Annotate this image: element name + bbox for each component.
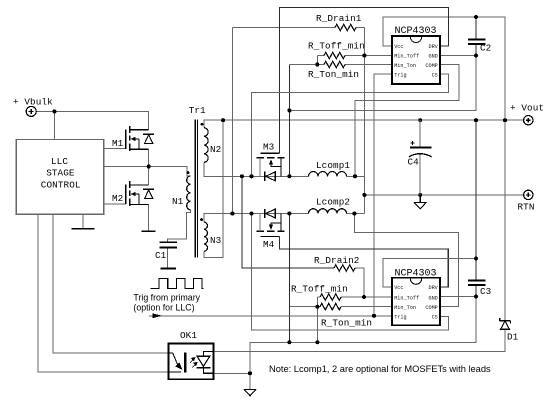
wire R_Drain2 right to Min_Toff2 xyxy=(355,268,364,297)
svg-text:N3: N3 xyxy=(210,235,221,246)
junction node C2/GND1 xyxy=(474,54,478,58)
transformer phase dot N2 xyxy=(201,123,204,126)
resistor R_Toff_min (top) xyxy=(324,52,345,58)
op-amp U2 NCP4303 bottom IC box xyxy=(392,278,440,325)
wire LLC bottom-left to OK1 lower pin xyxy=(38,214,169,372)
transistor M2 (low-side MOSFET) xyxy=(126,181,154,206)
svg-text:Trig from primary: Trig from primary xyxy=(133,293,200,303)
svg-text:GND: GND xyxy=(428,54,437,60)
LLC STAGE CONTROL box xyxy=(16,139,104,214)
svg-text:M2: M2 xyxy=(112,193,123,204)
ground bar under M2 source xyxy=(142,230,156,232)
transformer phase dot N1 xyxy=(187,171,190,174)
wire CS2 sense M4 drain xyxy=(252,214,449,331)
op-amp U1 NCP4303 top IC box xyxy=(392,36,440,84)
junction node Vbulk tap xyxy=(52,109,56,113)
svg-text:R_Toff_min: R_Toff_min xyxy=(308,41,365,52)
svg-text:C2: C2 xyxy=(480,43,491,54)
ground triangle under C4 xyxy=(414,195,426,209)
capacitor C2 xyxy=(468,40,486,44)
svg-text:(option for LLC): (option for LLC) xyxy=(133,303,194,313)
transistor M1 body arrow head xyxy=(131,137,136,141)
wire M4 row right of Lcomp2 xyxy=(347,213,365,215)
junction node half-bridge mid xyxy=(147,165,151,169)
junction node Lcomp2 right xyxy=(352,212,356,216)
wire Vout rail xyxy=(223,119,523,121)
inductor Lcomp1 xyxy=(309,172,347,177)
transistor M3 (SR MOSFET top) xyxy=(256,153,284,181)
trig arrow head xyxy=(153,313,163,318)
wire M4 gate to DRV2 xyxy=(280,236,449,287)
junction node RTN link xyxy=(362,193,366,197)
wire M2 source to ground bar xyxy=(148,204,150,231)
junction node M3 drain CS xyxy=(250,174,254,178)
wire CS top IC to M3 drain xyxy=(252,74,449,176)
svg-text:Vcc: Vcc xyxy=(394,44,403,50)
junction node M4 drain R_Drain1 xyxy=(230,212,234,216)
svg-text:R_Ton_min: R_Ton_min xyxy=(321,318,372,329)
wire Vbulk to M1 drain xyxy=(36,111,149,129)
svg-text:COMP: COMP xyxy=(425,63,437,69)
wire Trig from primary line xyxy=(149,315,392,317)
svg-text:R_Drain1: R_Drain1 xyxy=(316,13,362,24)
wire R_Drain1 row xyxy=(232,27,335,29)
svg-text:Min_Toff: Min_Toff xyxy=(394,295,419,301)
resistor R_Toff_min (bottom) xyxy=(320,294,341,300)
svg-text:Vcc: Vcc xyxy=(394,285,403,291)
wire N1 bottom to C1 xyxy=(168,210,191,242)
ground triangle below OK1 xyxy=(244,390,255,396)
wire GND top IC to C2 and down-left xyxy=(289,56,476,111)
transistor M4 body arrow head xyxy=(269,225,273,230)
wire COMP2 to Lcomp2 right xyxy=(354,214,458,307)
svg-text:M1: M1 xyxy=(112,138,124,149)
op-amp U1 notch xyxy=(410,37,421,43)
junction node M4 source gnd xyxy=(287,212,291,216)
transistor M4 (SR MOSFET bottom) xyxy=(256,209,284,237)
svg-text:RTN: RTN xyxy=(518,202,535,213)
svg-text:Tr1: Tr1 xyxy=(189,105,206,116)
wire D1 branch RTN/Vout vertical to OK1 xyxy=(504,120,506,321)
svg-text:+ Vbulk: + Vbulk xyxy=(13,97,53,108)
junction node Vout rail big vertical xyxy=(474,118,478,122)
wire DRV loop to M3 gate xyxy=(280,8,449,154)
wire gnd bus bottom xyxy=(250,297,476,390)
junction node Min_Toff1 xyxy=(362,54,366,58)
wire N2 bottom to M3 row xyxy=(204,162,309,176)
svg-text:CS: CS xyxy=(432,315,438,321)
inductor Lcomp2 xyxy=(309,209,347,214)
ground bar under C1 xyxy=(161,268,176,270)
wire R_Drain1 vertical bus x=364 xyxy=(363,28,365,214)
capacitor C1 xyxy=(159,242,177,247)
transistor M1 (high-side MOSFET) xyxy=(126,126,154,151)
svg-text:COMP: COMP xyxy=(425,305,437,311)
wire resistor junction down to gnd bus xyxy=(316,307,318,343)
junction node gnd x=289 xyxy=(287,108,291,112)
wire N3 top to M4 row xyxy=(204,214,309,223)
wire Trig top IC drop xyxy=(374,74,392,316)
junction node M3 source gnd xyxy=(287,174,291,178)
wire LLC to M2 gate xyxy=(104,203,126,205)
svg-text:R_Drain2: R_Drain2 xyxy=(314,255,359,266)
terminal RTN xyxy=(524,190,533,199)
wire R_Toff2/R_Ton2 link xyxy=(316,297,318,307)
svg-text:Trig: Trig xyxy=(394,72,406,78)
wire M1 source to mid node xyxy=(148,149,150,185)
svg-text:Lcomp2: Lcomp2 xyxy=(316,197,350,208)
junction node gnd bus x=317 xyxy=(315,340,319,344)
wire Vcc2 loop to Vout vertical xyxy=(383,259,476,288)
junction node Vout rail C4 xyxy=(418,118,422,122)
wire RTN rail xyxy=(364,194,523,196)
junction node M4 drain CS2 xyxy=(250,212,254,216)
wire resistor common x=289 to M3 row xyxy=(288,65,290,177)
transformer Tr1 winding N1 xyxy=(187,176,191,210)
resistor R_Drain2 xyxy=(334,265,355,271)
junction node RTN rail C4 xyxy=(418,193,422,197)
svg-text:Note: Lcomp1, 2 are optional f: Note: Lcomp1, 2 are optional for MOSFETs… xyxy=(269,364,491,374)
wire GND2 to C3 xyxy=(440,296,476,298)
resistor R_Ton_min (bottom) xyxy=(320,304,341,310)
transistor M3 body arrow head xyxy=(269,159,273,164)
transformer phase dot N3 xyxy=(200,218,203,221)
transformer Tr1 winding N3 xyxy=(204,222,208,251)
svg-text:CONTROL: CONTROL xyxy=(41,180,81,191)
junction node OK1 gnd xyxy=(248,371,252,375)
wire LLC ground stub xyxy=(82,214,84,228)
junction node Min_Toff2 xyxy=(362,295,366,299)
wire R_Drain1 left drop to M4 row xyxy=(231,28,233,214)
svg-text:C1: C1 xyxy=(155,250,167,261)
wire center tap riser N3 bottom to Vout rail xyxy=(204,120,223,258)
resistor R_Drain1 xyxy=(335,24,356,30)
trig waveform pulses xyxy=(151,278,204,288)
svg-text:CS: CS xyxy=(432,72,438,78)
optocoupler OK1 box xyxy=(169,344,214,380)
svg-text:R_Toff_min: R_Toff_min xyxy=(291,284,348,295)
diode D1 zener xyxy=(500,318,511,329)
wire N2 top to Vout node xyxy=(204,120,223,128)
wire Vout vertical top to C3 xyxy=(475,120,477,280)
wire M3 row right of Lcomp1 xyxy=(347,175,365,177)
wire C3 bottom lead xyxy=(475,285,477,297)
svg-text:Min_Toff: Min_Toff xyxy=(394,54,419,60)
svg-text:Min_Ton: Min_Ton xyxy=(394,305,416,311)
transistor M2 body arrow head xyxy=(131,192,136,196)
wire R_Toff_min row top xyxy=(317,55,324,57)
svg-text:DRV: DRV xyxy=(428,285,438,291)
wire Vbulk drop to LLC box xyxy=(53,111,55,139)
junction node Vout rail Vcc riser xyxy=(503,118,507,122)
wire half-bridge mid node to N1 top xyxy=(104,167,191,176)
wire M3 row to R_Drain2 xyxy=(242,176,334,268)
transformer Tr1 winding N2 xyxy=(204,128,208,163)
wire C1 bottom lead xyxy=(167,247,169,268)
wire LLC bottom to OK1 upper pin xyxy=(53,214,168,353)
terminal + Vbulk xyxy=(26,106,36,116)
junction node Vcc1/C2 xyxy=(474,15,478,19)
svg-text:STAGE: STAGE xyxy=(46,168,75,179)
svg-text:OK1: OK1 xyxy=(180,330,197,341)
svg-text:NCP4303: NCP4303 xyxy=(395,269,437,280)
svg-text:N2: N2 xyxy=(210,144,221,155)
terminal + Vout xyxy=(524,116,533,125)
wire C2 top lead xyxy=(475,17,477,39)
wire R_Toff_min2 row xyxy=(317,296,320,298)
svg-text:M4: M4 xyxy=(263,239,275,250)
svg-text:Min_Ton: Min_Ton xyxy=(394,63,416,69)
wire R_Ton_min row top xyxy=(289,64,324,66)
svg-text:Trig: Trig xyxy=(394,315,406,321)
optocoupler OK1 emission arrows xyxy=(190,358,197,368)
junction node center tap / Vout xyxy=(221,118,225,122)
svg-text:+ Vout: + Vout xyxy=(510,103,544,114)
junction node M3 drain R_Drain2 xyxy=(240,174,244,178)
junction node trig wire xyxy=(372,314,376,318)
wire R_Toff/R_Ton link xyxy=(316,56,318,65)
ground bar under LLC box xyxy=(72,228,95,230)
optocoupler OK1 LED xyxy=(169,353,186,373)
optocoupler OK1 phototransistor xyxy=(197,351,214,373)
wire OK1 lower-right pin xyxy=(213,372,250,374)
svg-text:NCP4303: NCP4303 xyxy=(395,26,437,37)
junction node R_Toff1/R_Ton1 xyxy=(315,63,319,67)
svg-text:M3: M3 xyxy=(263,142,274,153)
svg-text:GND: GND xyxy=(428,295,437,301)
junction node gnd bus x=289 xyxy=(287,340,291,344)
svg-text:C4: C4 xyxy=(408,157,420,168)
svg-text:R_Ton_min: R_Ton_min xyxy=(308,69,359,80)
wire C2 bottom lead xyxy=(475,44,477,55)
junction node C3/GND2 xyxy=(474,295,478,299)
transformer Tr1 core xyxy=(195,120,197,258)
svg-text:DRV: DRV xyxy=(428,44,438,50)
junction node Vcc2 xyxy=(474,257,478,261)
svg-text:D1: D1 xyxy=(507,332,519,343)
op-amp U2 notch xyxy=(410,279,421,285)
svg-text:LLC: LLC xyxy=(51,156,68,167)
wire M4 junction x=289 down to gnd bus xyxy=(288,214,290,343)
wire R_Ton_min2 row xyxy=(289,306,320,308)
junction node R_Toff2/R_Ton2 xyxy=(315,305,319,309)
junction node Lcomp1 right xyxy=(353,174,357,178)
svg-text:C3: C3 xyxy=(480,286,491,297)
wire Vcc loop top IC to Vout rail xyxy=(383,17,505,120)
resistor R_Ton_min (top) xyxy=(324,61,345,67)
capacitor C4 polarized xyxy=(409,120,432,195)
wire COMP top IC to Lcomp1 right xyxy=(355,65,459,177)
capacitor C3 xyxy=(468,281,486,285)
wire LLC to M1 gate xyxy=(104,148,126,150)
svg-text:N1: N1 xyxy=(172,196,184,207)
svg-text:Lcomp1: Lcomp1 xyxy=(316,160,350,171)
